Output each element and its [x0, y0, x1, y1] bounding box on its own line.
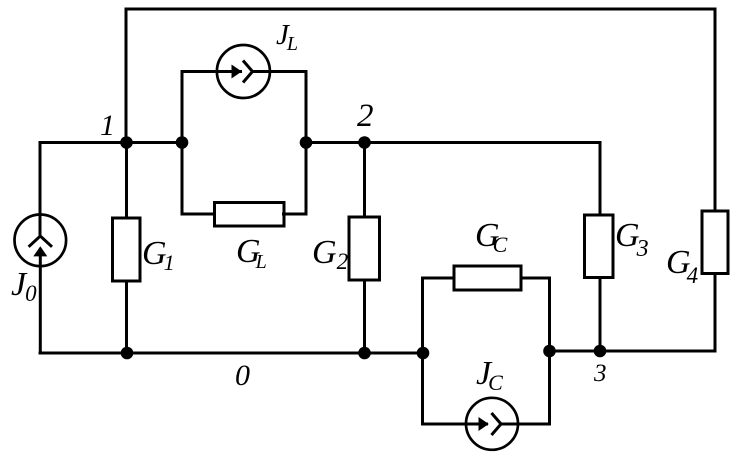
junction dot node 1 [120, 136, 133, 149]
wire node 2 to G3 corner [364, 141, 602, 144]
wire G3 corner down to G3 [599, 143, 602, 217]
wire G3 to node 3 [599, 277, 602, 353]
wire bottom rail right [550, 350, 717, 353]
wire G_C top right lead [520, 277, 551, 280]
junction dot node 3 [594, 345, 607, 358]
junction dot J_L left [176, 136, 189, 149]
wire J_L right vertical [305, 70, 308, 216]
svg-text:GC: GC [475, 217, 508, 257]
label node 1 [100, 109, 115, 142]
wire G_C top left lead [421, 277, 455, 280]
wire G1 to bottom rail [125, 280, 128, 355]
label G4 [666, 244, 698, 288]
wire G_L left lead [182, 213, 216, 216]
label J_C [476, 355, 503, 395]
wire node 1 down to G1 [125, 143, 128, 220]
wire top rail [125, 8, 717, 11]
current source J_C [466, 398, 518, 450]
svg-text:3: 3 [593, 360, 607, 387]
label G1 [142, 235, 175, 275]
junction dot G2 bottom [358, 347, 371, 360]
resistor G_L [215, 203, 285, 227]
wire J_L right junction to node 2 [306, 141, 366, 144]
wire node 1 to J_L left junction [126, 141, 184, 144]
wire G2 to bottom rail [363, 279, 366, 355]
current source J_L [217, 45, 270, 98]
svg-text:G2: G2 [312, 234, 348, 274]
label node 2 [357, 98, 374, 134]
wire left corner down to J0 [39, 143, 42, 237]
resistor G3 [585, 215, 614, 278]
svg-text:JC: JC [476, 355, 503, 395]
junction dot G_C right [543, 345, 556, 358]
resistor G2 [349, 217, 380, 280]
wire G_C left vertical [421, 277, 424, 426]
svg-text:J0: J0 [11, 266, 37, 306]
resistor G_C [454, 266, 521, 290]
wire G4 to bottom rail [714, 273, 717, 353]
wire node 2 down to G2 [363, 143, 366, 219]
wire bottom rail left [39, 352, 424, 355]
svg-text:0: 0 [235, 359, 250, 392]
svg-text:G3: G3 [615, 217, 649, 262]
wire J_L left vertical [181, 70, 184, 216]
wire node 1 to left corner [39, 141, 129, 144]
junction dot G_C left [417, 347, 430, 360]
svg-text:G1: G1 [142, 235, 175, 275]
wire node 1 up to top rail [125, 10, 128, 144]
wire J_C bottom right lead [501, 423, 551, 426]
wire J_L top left [181, 70, 243, 73]
svg-text:2: 2 [357, 98, 374, 134]
wire J_L top right [253, 70, 308, 73]
wire G_C right vertical [548, 277, 551, 426]
label J_L [276, 19, 298, 55]
label G2 [312, 234, 348, 274]
label G_C [475, 217, 508, 257]
wire G_L right lead [282, 213, 306, 216]
label J0 [11, 266, 37, 306]
wire J_C bottom left lead [421, 423, 488, 426]
junction dot G1 bottom [121, 347, 134, 360]
wire top rail down to G4 [714, 10, 717, 211]
svg-text:G4: G4 [666, 244, 698, 288]
resistor G1 [113, 218, 141, 281]
svg-text:1: 1 [100, 109, 115, 142]
label G3 [615, 217, 649, 262]
label G_L [236, 233, 267, 273]
svg-text:JL: JL [276, 19, 298, 55]
resistor G4 [702, 211, 728, 274]
current source J0 [15, 215, 67, 355]
label node 0 [235, 359, 250, 392]
svg-text:GL: GL [236, 233, 267, 273]
junction dot J_L right [300, 136, 313, 149]
junction dot node 2 [358, 136, 371, 149]
label node 3 [593, 360, 607, 387]
